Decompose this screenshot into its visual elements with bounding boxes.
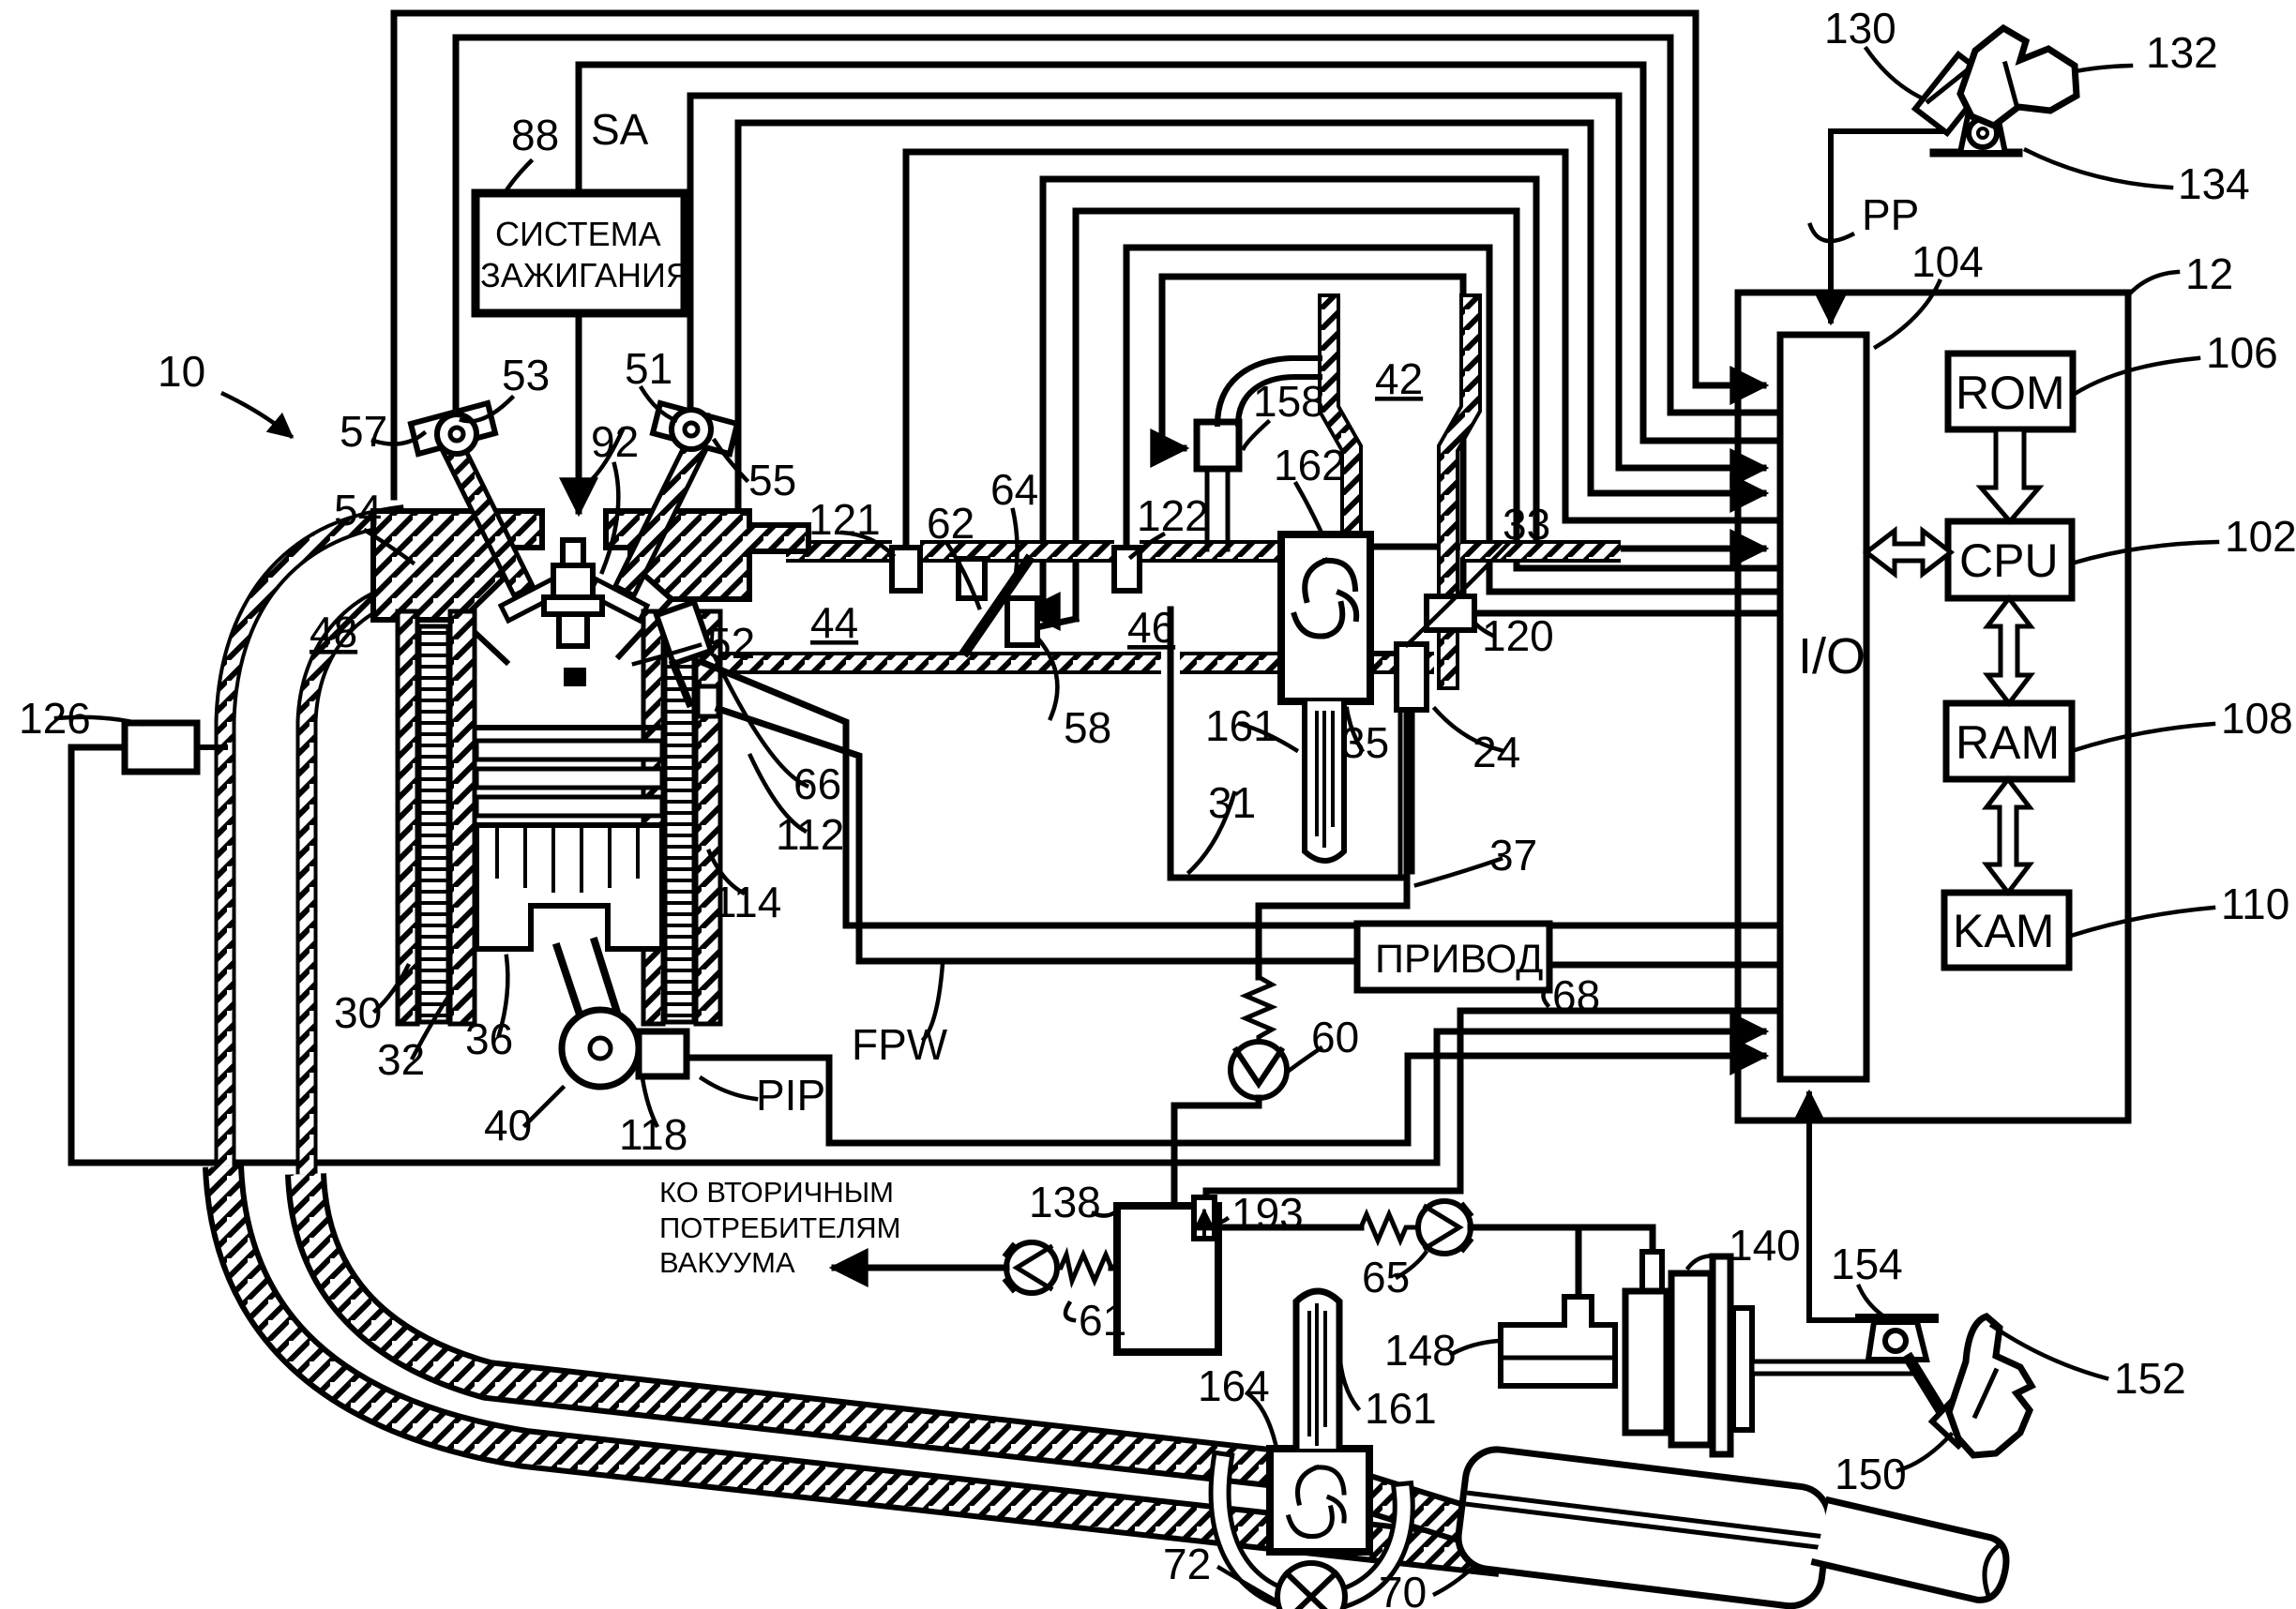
svg-text:12: 12 <box>2185 249 2233 298</box>
leader 30 <box>375 966 408 1011</box>
leader 161 upper <box>1240 724 1296 750</box>
svg-text:72: 72 <box>1163 1540 1211 1588</box>
leader 121 <box>842 533 893 555</box>
leader 193 <box>1216 1219 1227 1222</box>
svg-text:121: 121 <box>808 495 881 544</box>
svg-text:ПРИВОД: ПРИВОД <box>1375 937 1543 982</box>
leader 65 <box>1397 1253 1426 1277</box>
controller box 12 <box>1738 293 2128 1120</box>
svg-text:32: 32 <box>377 1035 425 1084</box>
wire sensor 120 to IO <box>1474 610 1775 617</box>
PIP sensor 118 <box>639 1031 687 1076</box>
leader 60 <box>1289 1048 1321 1071</box>
wire bus 9 sensor 122 <box>1126 248 1775 592</box>
leader 148 <box>1452 1341 1499 1354</box>
sensor 122 <box>1114 548 1140 591</box>
arrow CPU-RAM double <box>1987 598 2031 703</box>
svg-text:152: 152 <box>2114 1354 2186 1403</box>
svg-text:114: 114 <box>713 878 781 926</box>
valve 53 stem <box>439 434 533 595</box>
wire 33 <box>1370 651 1397 656</box>
leader 61 <box>1065 1303 1074 1320</box>
leader 55 <box>715 441 747 480</box>
check valve 60 <box>1231 1042 1287 1098</box>
aspirator inlet tube 161 <box>1296 1291 1339 1449</box>
intake runner upper wall 44 <box>786 540 1621 563</box>
accelerator pedal pad 130 <box>1915 54 1990 133</box>
head block right <box>606 511 808 599</box>
svg-text:70: 70 <box>1379 1568 1427 1609</box>
leader 112 <box>750 756 805 831</box>
wire canister box to purge valve 158 <box>1162 277 1463 591</box>
exhaust pipe upper run <box>306 1174 1294 1470</box>
wire 193 to valve 65 <box>1215 1225 1361 1231</box>
svg-text:КО ВТОРИЧНЫМ: КО ВТОРИЧНЫМ <box>659 1176 894 1209</box>
head block left <box>373 511 542 620</box>
piston skirt <box>476 825 662 949</box>
accelerator bracket 134 <box>1934 149 2018 158</box>
connecting rod <box>557 941 619 1026</box>
check valve 65 <box>1418 1201 1471 1254</box>
leader 32 <box>413 994 450 1058</box>
leader 102 <box>2075 542 2217 563</box>
RAM box 108 <box>1946 703 2072 779</box>
spark plug 92 <box>563 540 583 565</box>
leader 12 <box>2128 272 2178 295</box>
valve 53 head <box>501 579 559 621</box>
leader 31 <box>1189 793 1234 872</box>
ejector venturi 35 <box>1400 710 1412 878</box>
exhaust pipe left wall vertical <box>215 1005 236 1172</box>
leader 10 pointer <box>223 394 291 436</box>
exhaust runner 48 outer wall <box>225 517 394 1005</box>
leader 36 <box>499 956 507 1035</box>
leader 114 <box>709 851 743 893</box>
svg-text:ВАКУУМА: ВАКУУМА <box>659 1246 795 1279</box>
leader 58 <box>1037 638 1057 718</box>
svg-text:51: 51 <box>625 344 672 393</box>
svg-text:122: 122 <box>1137 491 1209 540</box>
wire bus 6 sensor 121 <box>906 152 1775 549</box>
svg-text:104: 104 <box>1911 237 1984 286</box>
wire bus 8 throttle position <box>1076 211 1775 619</box>
svg-text:138: 138 <box>1029 1178 1101 1226</box>
leader 54 <box>366 531 413 563</box>
arrow RAM-KAM double <box>1986 779 2030 893</box>
svg-text:46: 46 <box>1127 603 1175 652</box>
muffler 70 <box>1455 1446 1833 1609</box>
shutoff valve 72 <box>1277 1563 1345 1609</box>
arrow ROM to CPU <box>1981 429 2039 521</box>
piston 36 crown and rings <box>476 725 662 730</box>
wire 112 to driver <box>718 709 1357 961</box>
check valve 61 <box>1006 1242 1057 1293</box>
svg-text:24: 24 <box>1473 728 1520 776</box>
air duct 42 right wall <box>1448 305 1471 679</box>
leader SA <box>602 464 618 572</box>
svg-text:65: 65 <box>1362 1253 1410 1301</box>
svg-text:106: 106 <box>2206 328 2278 377</box>
valve 51 head <box>589 579 647 621</box>
air duct 42 left wall <box>1329 305 1352 555</box>
svg-text:108: 108 <box>2221 694 2293 743</box>
valve 51 rocker 55 <box>653 403 737 454</box>
svg-text:33: 33 <box>1503 500 1550 549</box>
arrow IO-CPU double <box>1866 531 1951 574</box>
leader 104 <box>1876 281 1940 347</box>
svg-text:162: 162 <box>1274 441 1346 489</box>
svg-text:I/O: I/O <box>1798 628 1865 684</box>
exhaust runner 48 inner wall <box>307 586 430 1013</box>
svg-text:102: 102 <box>2225 512 2296 561</box>
leader 66 <box>715 656 807 786</box>
svg-text:161: 161 <box>1365 1384 1437 1433</box>
leader 108 <box>2075 724 2213 750</box>
wire bus 2 to valve 53 <box>456 38 1775 433</box>
sensor 121 <box>892 548 920 591</box>
svg-text:ROM: ROM <box>1956 367 2065 419</box>
cylinder wall left <box>398 611 417 1024</box>
brake pedal bracket 154 <box>1860 1314 1934 1323</box>
crankshaft sensor wheel 40 <box>562 1010 639 1087</box>
svg-text:130: 130 <box>1824 4 1896 53</box>
svg-text:55: 55 <box>748 456 796 504</box>
leader 154 <box>1859 1286 1881 1315</box>
svg-text:148: 148 <box>1384 1326 1457 1375</box>
svg-text:42: 42 <box>1375 354 1423 403</box>
svg-text:158: 158 <box>1253 377 1325 426</box>
svg-text:10: 10 <box>158 347 205 396</box>
leader 37 <box>1416 859 1501 885</box>
exhaust pipe lower run <box>223 1166 1501 1556</box>
svg-text:62: 62 <box>927 499 974 548</box>
leader 62 <box>947 544 979 608</box>
leader 164 <box>1247 1393 1276 1444</box>
fuel injector 66 <box>657 602 711 664</box>
leader 52 <box>634 645 700 664</box>
svg-text:CPU: CPU <box>1959 534 2059 587</box>
wire plenum to valve 60 <box>1259 878 1407 977</box>
spring 61 <box>1057 1255 1111 1281</box>
leader 24 <box>1435 709 1501 750</box>
wire 92 to spark plug <box>576 313 582 511</box>
plenum 31 housing <box>1171 609 1407 878</box>
leader 88 <box>505 161 531 193</box>
compressor 162 <box>1281 534 1370 701</box>
leader FPW <box>924 964 943 1039</box>
leader 64 <box>1013 510 1018 581</box>
foot 152 <box>1949 1316 2032 1455</box>
wire 148 tap <box>1576 1227 1582 1296</box>
reservoir box 138 <box>1117 1206 1218 1352</box>
leader PP <box>1810 225 1852 241</box>
leader PIP <box>702 1078 756 1099</box>
svg-text:44: 44 <box>810 598 858 647</box>
leader 162 <box>1296 484 1321 531</box>
leader 68 <box>1543 986 1549 1005</box>
purge hose to duct <box>1217 358 1320 424</box>
leader 70 <box>1435 1568 1473 1594</box>
leader 72 <box>1219 1568 1274 1600</box>
spring 60 <box>1246 977 1272 1043</box>
svg-text:57: 57 <box>340 407 387 456</box>
svg-text:193: 193 <box>1231 1189 1304 1238</box>
CPU box 102 <box>1948 521 2072 598</box>
leader 161 lower <box>1339 1350 1358 1408</box>
exhaust sensor 126 <box>125 723 197 772</box>
ignition system box 88 <box>476 193 685 313</box>
throttle plate 62 <box>966 561 1028 651</box>
leader 106 <box>2075 358 2198 394</box>
svg-text:64: 64 <box>990 465 1038 514</box>
foot 132 <box>1960 28 2077 126</box>
solenoid valve 148 <box>1501 1297 1615 1386</box>
leader 150 <box>1898 1435 1951 1470</box>
wire PP into IO top <box>1831 131 1943 321</box>
leader 140 <box>1688 1256 1722 1268</box>
svg-text:60: 60 <box>1311 1013 1359 1061</box>
brake pedal arm 150 <box>1910 1360 1940 1408</box>
wire to booster 140 <box>1471 1227 1653 1255</box>
leader 152 <box>1992 1326 2107 1378</box>
pushrod <box>1752 1361 1913 1374</box>
svg-text:KAM: KAM <box>1953 905 2054 957</box>
svg-text:RAM: RAM <box>1956 716 2060 769</box>
wire bus 5 <box>738 123 1763 553</box>
brake booster 140 <box>1642 1252 1662 1296</box>
sensor 24 <box>1397 644 1427 710</box>
wire 61 row <box>1111 1265 1117 1271</box>
wire SA bus 1 <box>394 13 1763 497</box>
KAM box 110 <box>1944 893 2069 968</box>
leader 33 <box>1407 544 1508 645</box>
svg-text:PP: PP <box>1862 190 1919 239</box>
leader 92 <box>587 429 623 484</box>
svg-text:35: 35 <box>1341 718 1389 767</box>
wire PIP to IO <box>687 1056 1763 1143</box>
sensor 112 <box>698 686 718 716</box>
leader 158 <box>1244 422 1268 448</box>
svg-text:PIP: PIP <box>756 1071 825 1120</box>
leader 110 <box>2071 908 2213 936</box>
svg-text:110: 110 <box>2221 880 2289 928</box>
leader 57 <box>373 433 424 444</box>
svg-text:58: 58 <box>1064 703 1111 752</box>
svg-text:ПОТРЕБИТЕЛЯМ: ПОТРЕБИТЕЛЯМ <box>659 1211 900 1244</box>
valve 193 <box>1194 1197 1215 1239</box>
svg-text:132: 132 <box>2146 28 2218 77</box>
leader 134 <box>2026 150 2171 188</box>
leader 132 <box>2021 66 2131 89</box>
pipe stub to muffler <box>1365 1493 1491 1532</box>
wire bus 4 to valve 51 <box>690 96 1763 468</box>
throttle body 62 <box>959 559 985 598</box>
leader 53 <box>461 398 512 421</box>
I/O block 104 <box>1780 335 1866 1079</box>
exhaust pipe inner wall vertical <box>296 1013 318 1180</box>
svg-text:FPW: FPW <box>852 1020 948 1069</box>
driver box 68 <box>1357 924 1549 990</box>
leader 126 <box>56 717 141 724</box>
svg-text:ЗАЖИГАНИЯ: ЗАЖИГАНИЯ <box>480 256 690 294</box>
wire compressor 162 signal <box>1371 544 1463 550</box>
valve 51 stem <box>615 434 709 595</box>
intake runner lower wall <box>647 652 1434 674</box>
svg-text:37: 37 <box>1489 831 1537 880</box>
leader 35 <box>1347 709 1362 750</box>
wire pedal 154 into IO bottom <box>1809 1094 1856 1320</box>
wire bus 7 throttle actuator <box>1043 179 1763 605</box>
tail pipe <box>1815 1500 2012 1604</box>
purge valve 158 <box>1207 469 1228 549</box>
svg-text:61: 61 <box>1079 1296 1126 1345</box>
valve 53 rocker 57 <box>411 403 495 454</box>
wire bus 3 SA from ignition <box>579 65 1775 441</box>
compressor outlet tube 161 <box>1305 701 1344 861</box>
wire 193 to IO <box>1206 1011 1775 1199</box>
wire FPW injector to IO <box>702 662 1775 925</box>
ROM box 106 <box>1948 353 2073 429</box>
leader 51 <box>642 388 675 420</box>
leader 122 <box>1131 534 1163 557</box>
svg-text:53: 53 <box>502 351 550 399</box>
brake pedal pad <box>1932 1382 1996 1446</box>
bypass U pipe <box>1220 1463 1404 1603</box>
cylinder wall right <box>643 611 663 1024</box>
spring 65 <box>1361 1214 1418 1241</box>
aspirator 164 <box>1270 1449 1369 1552</box>
svg-text:48: 48 <box>310 608 357 656</box>
svg-text:140: 140 <box>1729 1221 1801 1270</box>
arrow to vacuum consumers <box>835 1265 1006 1271</box>
leader 40 <box>525 1088 563 1125</box>
svg-text:36: 36 <box>465 1015 513 1063</box>
svg-text:88: 88 <box>511 111 559 159</box>
svg-text:134: 134 <box>2178 159 2250 208</box>
svg-text:154: 154 <box>1831 1240 1903 1288</box>
svg-text:150: 150 <box>1835 1450 1907 1498</box>
sensor 120 <box>1427 596 1474 630</box>
combustion chamber 52 walls <box>461 599 672 662</box>
leader 120 <box>1476 624 1493 636</box>
svg-text:СИСТЕМА: СИСТЕМА <box>495 215 661 253</box>
wire 126 to IO <box>71 747 1763 1163</box>
svg-text:68: 68 <box>1552 971 1600 1020</box>
svg-text:SA: SA <box>591 105 649 154</box>
leader 138 <box>1094 1211 1116 1216</box>
svg-text:54: 54 <box>334 486 382 534</box>
leader 118 <box>642 1078 657 1125</box>
leader 130 <box>1866 49 1934 103</box>
